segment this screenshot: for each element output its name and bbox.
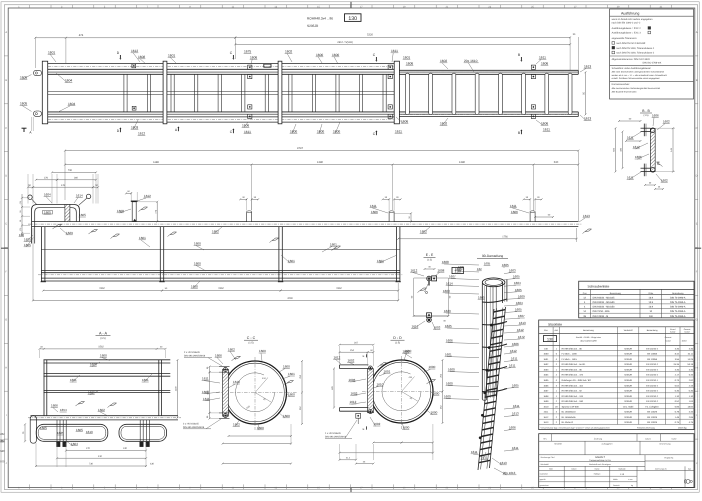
section A-A base rail <box>31 415 179 417</box>
svg-text:Sprosse LSP 500: Sprosse LSP 500 <box>562 405 580 408</box>
svg-text:1625: 1625 <box>57 431 64 435</box>
svg-text:D: D <box>5 175 7 178</box>
svg-text:1611: 1611 <box>511 357 518 361</box>
svg-text:(25): (25) <box>19 200 22 204</box>
elevation wall anchor cylinders <box>247 212 252 222</box>
svg-text:50: 50 <box>19 211 22 213</box>
svg-text:1605: 1605 <box>513 275 520 279</box>
svg-text:S235JR: S235JR <box>624 395 632 398</box>
svg-text:1600: 1600 <box>257 426 264 430</box>
svg-text:Name: Name <box>671 438 676 441</box>
svg-text:1600: 1600 <box>100 354 107 358</box>
svg-text:3D-Darstellung: 3D-Darstellung <box>482 254 503 258</box>
svg-text:1600: 1600 <box>191 284 198 288</box>
svg-text:26.35: 26.35 <box>674 363 680 366</box>
elevation bracket height dimension <box>156 202 158 222</box>
svg-text:FL 50x5 .. x290: FL 50x5 .. x290 <box>562 353 578 356</box>
svg-text:Werkstoff: Werkstoff <box>541 463 549 466</box>
svg-text:1604: 1604 <box>68 102 75 106</box>
svg-text:132: 132 <box>477 267 482 271</box>
svg-text:1608: 1608 <box>442 260 449 264</box>
svg-text:DIN 933/34 - M16x45: DIN 933/34 - M16x45 <box>593 296 616 299</box>
svg-text:Bezeichnung: Bezeichnung <box>660 443 671 446</box>
detail C-C right vertical dimensions <box>301 361 303 393</box>
svg-text:1606: 1606 <box>250 55 257 59</box>
svg-text:1614: 1614 <box>446 281 453 285</box>
section A-A bottom dimensions <box>66 450 146 452</box>
svg-text:S235JR: S235JR <box>624 390 632 393</box>
svg-text:E: E <box>363 428 365 431</box>
svg-text:1612: 1612 <box>138 132 145 136</box>
svg-text:1610: 1610 <box>543 405 549 408</box>
3D view ladder rungs <box>494 310 506 312</box>
plan view open-ladder bottom rail <box>397 116 578 118</box>
svg-text:1606: 1606 <box>541 61 548 65</box>
svg-text:1611: 1611 <box>244 130 251 134</box>
svg-text:geprüft: geprüft <box>540 478 546 481</box>
svg-text:1602: 1602 <box>228 347 235 351</box>
svg-text:1654: 1654 <box>60 408 67 412</box>
svg-text:Anzahl + Profil + Länge usw.: Anzahl + Profil + Länge usw. <box>576 336 602 339</box>
svg-text:430: 430 <box>150 463 155 466</box>
svg-text:1380: 1380 <box>317 161 323 164</box>
svg-text:nach DIN EN 1090-1 und -2: nach DIN EN 1090-1 und -2 <box>612 21 641 24</box>
svg-text:1619: 1619 <box>86 430 93 434</box>
svg-text:1608: 1608 <box>543 395 549 398</box>
svg-text:angewandte Toleranzen:: angewandte Toleranzen: <box>612 37 638 40</box>
svg-text:* Gesamtmasse (kg) = Einzelmas: * Gesamtmasse (kg) = Einzelmasse (kg) + … <box>540 426 610 429</box>
elevation weld flags <box>113 234 120 237</box>
svg-text:1 x HV M16x45: 1 x HV M16x45 <box>325 432 341 435</box>
section A-A hook profile 2 <box>119 424 167 441</box>
detail D-D bottom bracket bolt <box>356 413 361 418</box>
svg-text:1600: 1600 <box>429 365 436 369</box>
3D view cage hoop bands <box>482 299 507 302</box>
svg-text:476: 476 <box>61 184 66 187</box>
svg-text:1675: 1675 <box>244 50 251 54</box>
plan view ladder stringer top (thick) <box>44 71 578 73</box>
svg-text:1605: 1605 <box>478 295 485 299</box>
plan view cage posts <box>42 61 47 124</box>
plan view open ladder rungs 20x1610 <box>406 73 410 115</box>
elevation left wall hook assembly <box>32 205 80 244</box>
svg-text:1601: 1601 <box>330 242 337 246</box>
detail C-C bottom dimensions <box>229 435 292 437</box>
svg-text:H: H <box>5 366 7 369</box>
svg-text:Rev: Rev <box>543 438 546 441</box>
svg-text:1602: 1602 <box>440 59 447 63</box>
svg-text:1611: 1611 <box>391 49 398 53</box>
svg-text:1562: 1562 <box>99 287 105 290</box>
svg-text:S235JR: S235JR <box>624 416 632 419</box>
svg-text:DIN 74-2990-A: DIN 74-2990-A <box>670 315 686 318</box>
svg-text:ROHR Ø48.3x4 .. 244: ROHR Ø48.3x4 .. 244 <box>562 395 584 398</box>
svg-text:Datum: Datum <box>571 467 577 470</box>
svg-text:1625: 1625 <box>24 238 31 242</box>
svg-text:EN 10210-2: EN 10210-2 <box>646 400 658 403</box>
detail E-E weld flag with circle <box>420 288 427 291</box>
svg-text:Bemerkung: Bemerkung <box>647 329 658 332</box>
svg-text:1605: 1605 <box>512 384 519 388</box>
svg-text:1613: 1613 <box>584 117 591 121</box>
elevation anchor labels <box>394 212 411 214</box>
svg-text:1601: 1601 <box>48 50 55 54</box>
svg-text:1600: 1600 <box>259 349 266 353</box>
svg-text:(1:5): (1:5) <box>395 342 400 345</box>
elevation overall dimension 4747 <box>65 150 578 152</box>
svg-text:474: 474 <box>79 34 84 37</box>
grid reference ticks left/right <box>4 55 8 57</box>
svg-text:1614: 1614 <box>76 194 83 198</box>
svg-text:1600: 1600 <box>316 53 323 57</box>
svg-text:730: 730 <box>68 169 73 172</box>
svg-text:940: 940 <box>0 449 5 453</box>
svg-text:1613: 1613 <box>584 64 591 68</box>
svg-text:1608: 1608 <box>438 268 445 272</box>
svg-text:S235JR: S235JR <box>624 379 632 382</box>
svg-text:1602: 1602 <box>543 363 549 366</box>
svg-text:H: H <box>696 366 698 369</box>
svg-text:nach DIN EN 1090, Toleranzklas: nach DIN EN 1090, Toleranzklasse 2 <box>616 52 655 55</box>
svg-text:DIN 74-2990-A: DIN 74-2990-A <box>670 306 686 309</box>
svg-text:1605: 1605 <box>76 428 83 432</box>
svg-text:ROHR Ø48.3x4 .. 530: ROHR Ø48.3x4 .. 530 <box>562 400 584 403</box>
svg-text:1601: 1601 <box>142 378 149 382</box>
svg-text:Stückliste: Stückliste <box>548 322 562 326</box>
svg-text:Werkstoff: Werkstoff <box>624 329 633 332</box>
svg-text:1611: 1611 <box>544 411 549 414</box>
svg-text:EN 10058: EN 10058 <box>647 353 658 356</box>
svg-text:S235JR: S235JR <box>624 363 632 366</box>
svg-text:(1:5): (1:5) <box>100 337 105 340</box>
svg-text:DIN 74-2990-A: DIN 74-2990-A <box>670 301 686 304</box>
svg-text:1602: 1602 <box>98 408 105 412</box>
svg-text:Hälbig/u: Hälbig/u <box>594 473 601 476</box>
svg-text:376: 376 <box>44 176 49 179</box>
svg-text:ROHR Ø48.3x4 .. 474: ROHR Ø48.3x4 .. 474 <box>562 374 584 377</box>
svg-text:5320: 5320 <box>367 33 373 36</box>
svg-text:Benennung: Benennung <box>610 292 622 295</box>
svg-text:1602: 1602 <box>285 50 292 54</box>
svg-text:kg: kg <box>631 484 633 487</box>
detail D-D top bracket arm <box>340 364 369 366</box>
svg-text:ROHR48.3x4 .. 86: ROHR48.3x4 .. 86 <box>307 17 333 21</box>
svg-text:EN 10210-2: EN 10210-2 <box>646 347 658 350</box>
svg-text:1605: 1605 <box>484 262 491 266</box>
plan view cage mid straps <box>48 91 397 93</box>
svg-text:B - B: B - B <box>642 109 650 113</box>
svg-text:254: 254 <box>350 349 355 352</box>
svg-text:Schweißen: siehe Ausführungsk: Schweißen: siehe Ausführungsklasse! <box>612 67 652 70</box>
detail C-C inner radius arc <box>236 373 275 412</box>
svg-text:Werkstoff nach Einzelgew.: Werkstoff nach Einzelgew. <box>589 463 612 466</box>
svg-text:A: A <box>696 31 698 34</box>
svg-text:Rohrbogen 3D - Ø48.3x4 / 90°: Rohrbogen 3D - Ø48.3x4 / 90° <box>562 379 592 382</box>
detail E-E bottom bolt <box>427 313 432 318</box>
svg-text:S235JR: S235JR <box>624 369 632 372</box>
detail B-B top bracket <box>641 127 651 129</box>
svg-text:D - D: D - D <box>393 336 402 340</box>
plan view right end 50 dimension <box>585 72 587 114</box>
svg-text:1611: 1611 <box>202 377 209 381</box>
svg-text:masse: masse <box>670 331 676 334</box>
svg-text:DIN ISO 2768-mK: DIN ISO 2768-mK <box>643 61 662 64</box>
svg-text:163.8: 163.8 <box>681 339 687 342</box>
svg-text:1625: 1625 <box>445 324 452 328</box>
detail D-D centerlines <box>362 391 443 393</box>
svg-text:1606: 1606 <box>215 353 222 357</box>
svg-text:(75): (75) <box>154 209 157 213</box>
plan view bolt groups at wall bracket positions <box>248 65 252 69</box>
plan view overall dimension line 474 / 5320 / 50 <box>34 38 36 68</box>
svg-text:FL 50x5 .. 1815: FL 50x5 .. 1815 <box>562 358 578 361</box>
svg-text:1613: 1613 <box>519 321 526 325</box>
svg-text:erstellt. Sichtbare Schweissnä: erstellt. Sichtbare Schweissnähte einzel… <box>612 77 661 80</box>
svg-text:EN 10058: EN 10058 <box>647 358 658 361</box>
svg-text:BL 160x50x55: BL 160x50x55 <box>562 416 577 419</box>
elevation lower frame posts <box>41 227 43 282</box>
svg-text:1602: 1602 <box>374 422 381 426</box>
svg-text:1609: 1609 <box>518 294 525 298</box>
svg-text:1605: 1605 <box>458 265 465 269</box>
svg-text:1605: 1605 <box>515 288 522 292</box>
svg-text:410: 410 <box>98 455 103 458</box>
svg-text:1601: 1601 <box>445 353 452 357</box>
detail D-D top dimensions 267/254/50 <box>340 344 374 346</box>
svg-text:1601: 1601 <box>384 369 391 373</box>
svg-text:EN 10029: EN 10029 <box>647 411 658 414</box>
svg-text:1562: 1562 <box>98 345 104 348</box>
3D view ladder mount bolts <box>490 324 492 326</box>
svg-text:1611: 1611 <box>509 364 516 368</box>
svg-text:1756: 1756 <box>502 235 508 238</box>
svg-text:Zeichnungs Titel: Zeichnungs Titel <box>541 456 555 459</box>
svg-text:D: D <box>696 175 698 178</box>
svg-text:1611: 1611 <box>513 404 520 408</box>
svg-text:1602: 1602 <box>348 359 355 363</box>
svg-text:1611: 1611 <box>510 204 517 208</box>
svg-text:S235JR: S235JR <box>624 374 632 377</box>
grid reference ticks top/bottom <box>29 5 31 8</box>
svg-text:1606: 1606 <box>371 210 378 214</box>
svg-text:262: 262 <box>0 432 5 436</box>
frame centre fold marks <box>1 247 8 249</box>
svg-text:Auftraggeber: Auftraggeber <box>602 443 613 446</box>
svg-text:1612: 1612 <box>144 194 151 198</box>
detail C-C left dimension chain <box>209 367 211 373</box>
svg-text:1612: 1612 <box>510 349 517 353</box>
svg-text:A: A <box>5 31 7 34</box>
elevation bottom dimensions 1562/50 <box>43 290 162 292</box>
svg-text:1607: 1607 <box>518 314 525 318</box>
svg-text:1606: 1606 <box>406 61 413 65</box>
svg-text:267: 267 <box>354 341 359 344</box>
svg-text:Ausführungsklasse = EXC 2: Ausführungsklasse = EXC 2 <box>612 27 642 30</box>
3D view cage right tube <box>502 282 504 304</box>
svg-text:1100: 1100 <box>175 386 178 391</box>
svg-text:4290: 4290 <box>287 297 293 300</box>
svg-text:Blatt: Blatt <box>549 467 553 470</box>
svg-text:1608: 1608 <box>138 55 145 59</box>
svg-text:1606: 1606 <box>543 384 549 387</box>
svg-text:gezeichnet: gezeichnet <box>540 484 549 487</box>
Stueckliste header assembly row <box>539 344 694 346</box>
svg-text:EN 10029: EN 10029 <box>647 421 658 424</box>
detail D-D right vertical dimensions <box>442 360 444 392</box>
svg-text:1605: 1605 <box>20 102 27 106</box>
svg-text:130: 130 <box>547 337 553 341</box>
elevation hook small dimensions 730/376/360/476 <box>52 171 96 173</box>
elevation lower frame bottom tube <box>41 277 400 279</box>
elevation lower frame top line <box>41 248 400 250</box>
plan view right rail end caps <box>577 70 579 74</box>
svg-text:1600: 1600 <box>444 395 451 399</box>
svg-text:1600: 1600 <box>448 368 455 372</box>
svg-text:ROHR Ø48.3x4 .. 92: ROHR Ø48.3x4 .. 92 <box>562 390 583 393</box>
svg-text:1612: 1612 <box>334 355 341 359</box>
svg-text:163.5 kg: 163.5 kg <box>678 426 687 429</box>
detail B-B bottom bracket <box>641 167 651 169</box>
detail D-D left vertical dimension <box>333 369 335 408</box>
detail D-D inner radius arc <box>382 372 421 411</box>
svg-text:53.19: 53.19 <box>688 363 694 366</box>
svg-text:42.11: 42.11 <box>688 353 694 356</box>
svg-text:S235JR: S235JR <box>624 421 632 424</box>
svg-text:130: 130 <box>19 233 24 237</box>
svg-text:Maßstab: Maßstab <box>619 467 626 470</box>
svg-text:DIN 74-2990-A: DIN 74-2990-A <box>670 310 686 313</box>
svg-text:1611: 1611 <box>370 204 377 208</box>
svg-text:EN 10210-2: EN 10210-2 <box>646 369 658 372</box>
svg-text:EN 10029: EN 10029 <box>647 416 658 419</box>
svg-text:1611: 1611 <box>395 129 402 133</box>
title block bottom grid rows <box>539 475 637 477</box>
3D view cage top ring <box>482 278 505 287</box>
svg-text:10.9: 10.9 <box>649 296 654 299</box>
svg-text:S235JR: S235JR <box>624 384 632 387</box>
svg-text:1606: 1606 <box>446 339 453 343</box>
svg-text:Anz: Anz <box>555 329 559 332</box>
svg-text:DIN 6914/6915/6916: DIN 6914/6915/6916 <box>184 355 206 358</box>
svg-text:1604: 1604 <box>514 281 521 285</box>
svg-text:1186: 1186 <box>153 161 159 164</box>
svg-text:Gewicht: Gewicht <box>613 484 620 487</box>
svg-text:Allgemeintoleranzen: DIN ISO: Allgemeintoleranzen: DIN ISO 13920 <box>612 58 651 61</box>
svg-text:EN 10210-2: EN 10210-2 <box>646 374 658 377</box>
svg-text:1605: 1605 <box>40 426 47 430</box>
title block company band <box>539 454 694 456</box>
svg-text:1604: 1604 <box>543 374 549 377</box>
svg-text:masse: masse <box>665 339 671 342</box>
svg-text:Gesamt: Gesamt <box>665 336 672 339</box>
svg-text:1600: 1600 <box>543 353 549 356</box>
detail B-B stringer hatched bar <box>650 129 655 172</box>
svg-text:Schraubenliste: Schraubenliste <box>588 285 610 289</box>
svg-text:Ausführung: Ausführung <box>621 12 639 16</box>
svg-text:1612: 1612 <box>517 328 524 332</box>
3D view position box 130 label <box>452 267 463 273</box>
section A-A left end cap <box>30 416 36 444</box>
Schraubenliste bolt list table <box>579 281 694 318</box>
svg-text:1611: 1611 <box>627 176 634 180</box>
svg-text:1600: 1600 <box>283 365 290 369</box>
svg-text:1600: 1600 <box>332 53 339 57</box>
svg-text:1612: 1612 <box>543 416 549 419</box>
elevation hook bolt circles <box>28 195 32 199</box>
svg-text:Änderung: Änderung <box>594 438 602 441</box>
svg-text:Bemerkung: Bemerkung <box>672 292 684 295</box>
svg-text:1607: 1607 <box>543 390 549 393</box>
svg-text:ROHR Ø48.3x4 .. 86: ROHR Ø48.3x4 .. 86 <box>562 347 583 350</box>
svg-text:EN 10210-2: EN 10210-2 <box>646 390 658 393</box>
title block revision row <box>539 440 694 442</box>
elevation chain dimension 1186/1380/558/530 <box>65 164 578 166</box>
svg-text:130: 130 <box>348 16 357 22</box>
svg-text:1606: 1606 <box>512 342 519 346</box>
title block material row <box>539 465 645 467</box>
svg-text:970: 970 <box>0 460 5 464</box>
svg-text:Datum: Datum <box>645 438 651 441</box>
svg-text:1600: 1600 <box>403 349 410 353</box>
Stueckliste parts list table <box>539 320 694 430</box>
svg-text:B: B <box>5 79 7 82</box>
svg-text:S235JR: S235JR <box>624 411 632 414</box>
svg-text:1606: 1606 <box>511 210 518 214</box>
plan view left hook pins <box>34 70 42 75</box>
detail E-E top bolt with plate <box>427 276 432 281</box>
title block drawing title row <box>539 460 645 462</box>
svg-text:ROHR Ø48.3x4 .. 86: ROHR Ø48.3x4 .. 86 <box>562 369 583 372</box>
svg-text:G: G <box>5 318 7 321</box>
detail C-C top bolt clip <box>219 366 230 368</box>
detail D-D cage hoop circle <box>370 360 433 423</box>
svg-text:270: 270 <box>86 447 91 450</box>
svg-text:1611: 1611 <box>543 128 550 132</box>
svg-text:Maße: Maße <box>613 478 618 481</box>
detail B-B rung circles <box>651 128 656 133</box>
detail D-D bottom bracket arm <box>340 407 369 409</box>
elevation left small vertical dim chain <box>21 194 23 236</box>
svg-text:1601: 1601 <box>543 358 549 361</box>
svg-text:Treppenaufstieg mit 1m: Treppenaufstieg mit 1m <box>589 459 611 462</box>
plan view section line A-A at left end <box>31 117 33 131</box>
section A-A hook profile 1 <box>36 424 108 441</box>
plan view rungs seen through cage <box>123 74 125 112</box>
svg-text:252: 252 <box>0 439 5 443</box>
svg-text:DIN 74-2990-A: DIN 74-2990-A <box>670 296 686 299</box>
section A-A right vertical dimension <box>177 360 179 418</box>
svg-text:1603: 1603 <box>443 289 450 293</box>
svg-text:1613: 1613 <box>512 412 519 416</box>
svg-text:360: 360 <box>74 176 79 179</box>
svg-text:(75): (75) <box>19 227 22 231</box>
svg-text:(1:5): (1:5) <box>427 258 432 261</box>
svg-text:1605: 1605 <box>79 213 86 217</box>
svg-text:18.92: 18.92 <box>688 405 694 408</box>
svg-text:1602: 1602 <box>663 120 670 124</box>
svg-text:S235JR: S235JR <box>624 347 632 350</box>
svg-text:1609: 1609 <box>543 400 549 403</box>
detail C-C bottom bolt clip <box>219 412 230 414</box>
svg-text:2967 / 5(593): 2967 / 5(593) <box>337 41 353 44</box>
svg-text:Projekt Nr.: Projekt Nr. <box>664 456 674 459</box>
svg-text:B: B <box>696 79 698 82</box>
svg-text:wenn im Detail nicht anders an: wenn im Detail nicht anders angegeben <box>612 18 654 21</box>
plan view open-ladder top rail <box>397 69 578 71</box>
plan view cage top tube <box>48 63 397 65</box>
elevation main rail tube <box>32 221 578 223</box>
svg-text:EN 10210-2: EN 10210-2 <box>646 363 658 366</box>
